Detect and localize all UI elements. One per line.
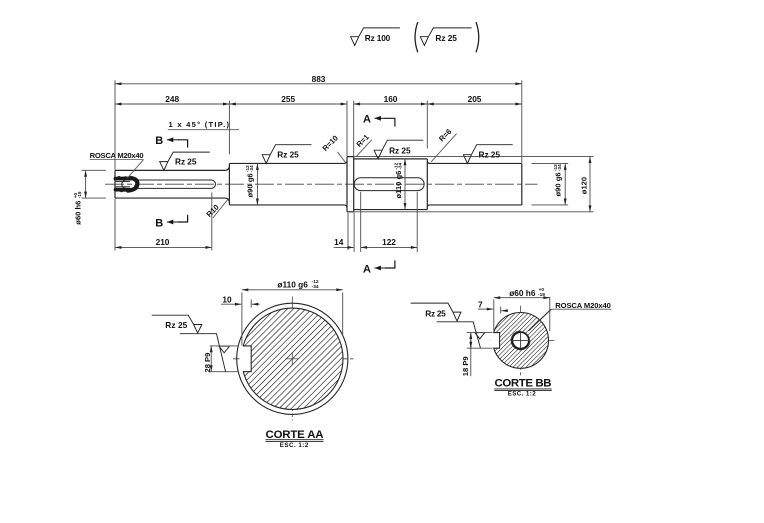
svg-text:7: 7 xyxy=(478,300,483,310)
svg-text:255: 255 xyxy=(281,94,295,104)
keyway slot on phi110 section (28 P9) xyxy=(354,178,424,191)
general roughness Rz 25 (top, in parentheses) xyxy=(415,22,418,52)
dimension phi110 g6 (rotated, on keyway section) xyxy=(404,159,406,210)
svg-text:Rz 25: Rz 25 xyxy=(277,149,299,159)
BB title CORTE BB xyxy=(494,378,551,398)
dimension 210 xyxy=(115,246,212,248)
svg-text:ø90 g6: ø90 g6 xyxy=(554,172,563,196)
dimension 255 xyxy=(229,103,347,105)
svg-text:Rz 25: Rz 25 xyxy=(425,308,446,318)
dimension 122 xyxy=(361,246,418,248)
AA outer circle phi120 (visible behind) xyxy=(237,303,348,414)
svg-text:18 P9: 18 P9 xyxy=(461,356,470,376)
svg-text:-34: -34 xyxy=(557,164,562,171)
svg-text:883: 883 xyxy=(312,74,326,84)
AA dim phi110 g6 -12 -34 xyxy=(242,290,343,346)
svg-text:Rz 25: Rz 25 xyxy=(389,146,411,156)
shaft centerline xyxy=(105,183,538,185)
BB dim 7 (keyway depth) xyxy=(478,307,508,314)
svg-text:Rz 25: Rz 25 xyxy=(175,156,197,166)
label ROSCA M20x40 with leader xyxy=(90,151,144,178)
BB hatched cut face (phi60) xyxy=(493,313,549,369)
dimension 160 xyxy=(354,103,428,105)
extension lines main view xyxy=(82,80,594,252)
roughness symbol Rz 25 on phi90 xyxy=(262,145,311,164)
note 1 x 45 (TIP.) xyxy=(168,120,239,130)
BB label ROSCA M20x40 with leader xyxy=(529,301,612,331)
svg-text:ESC. 1:2: ESC. 1:2 xyxy=(280,442,309,449)
AA hatched cut face (phi110) xyxy=(242,308,343,409)
svg-text:10: 10 xyxy=(222,294,232,304)
svg-text:ø90 g6: ø90 g6 xyxy=(246,173,255,197)
general roughness Rz 100 (top) xyxy=(351,28,400,46)
svg-text:28 P9: 28 P9 xyxy=(203,353,212,373)
AA keyway notch whiteout xyxy=(240,346,251,371)
svg-text:ø110 g6: ø110 g6 xyxy=(277,279,308,289)
fillet label R=10 with leader xyxy=(321,134,346,163)
svg-text:205: 205 xyxy=(468,94,482,104)
section arrow A top xyxy=(375,118,395,126)
svg-text:248: 248 xyxy=(165,94,179,104)
svg-text:Rz 25: Rz 25 xyxy=(165,320,187,330)
svg-text:A: A xyxy=(363,114,371,126)
dimension phi120 (far right, rotated) xyxy=(589,157,591,212)
svg-text:ESC. 1:2: ESC. 1:2 xyxy=(508,391,537,398)
svg-text:Rz 25: Rz 25 xyxy=(435,33,457,43)
svg-text:CORTE BB: CORTE BB xyxy=(495,378,552,390)
svg-text:Rz 25: Rz 25 xyxy=(479,149,501,159)
section arrow A bottom xyxy=(375,260,395,268)
svg-text:A: A xyxy=(363,263,371,275)
BB keyway notch outline xyxy=(494,333,500,349)
svg-text:-34: -34 xyxy=(398,162,403,169)
dimension phi90 g6 (right end, rotated) xyxy=(564,163,566,205)
BB dim phi60 h6 +0 -19 xyxy=(494,297,550,331)
BB center cross xyxy=(512,332,529,349)
AA dim 10 (keyway depth) xyxy=(221,300,260,308)
svg-text:ø120: ø120 xyxy=(580,177,589,194)
svg-text:1 x 45° (TIP.): 1 x 45° (TIP.) xyxy=(169,120,230,129)
BB keyway notch whiteout xyxy=(491,333,500,348)
svg-text:ø60 h6: ø60 h6 xyxy=(74,201,83,225)
AA keyway notch outline xyxy=(243,346,251,372)
BB roughness Rz 25 with flank symbol xyxy=(411,303,485,348)
fillet label R=1 with leader xyxy=(355,132,372,157)
shaft outline xyxy=(115,157,522,212)
svg-text:-19: -19 xyxy=(77,191,82,198)
svg-text:-34: -34 xyxy=(249,165,254,172)
svg-text:R=1: R=1 xyxy=(355,132,372,149)
BB centerlines xyxy=(491,306,556,376)
AA title CORTE AA xyxy=(266,429,324,449)
svg-text:ø110 g6: ø110 g6 xyxy=(394,171,403,199)
svg-text:Rz 100: Rz 100 xyxy=(365,33,391,43)
section arrow B bottom xyxy=(167,215,188,222)
svg-text:ROSCA M20x40: ROSCA M20x40 xyxy=(90,151,144,160)
svg-text:R10: R10 xyxy=(205,203,221,219)
roughness symbol Rz 25 on right phi90 xyxy=(463,145,512,164)
fillet label R10 with leader xyxy=(205,199,229,219)
svg-text:CORTE AA: CORTE AA xyxy=(266,429,324,441)
svg-text:160: 160 xyxy=(384,94,398,104)
dimension 883 xyxy=(115,83,522,85)
AA roughness Rz 25 with flank symbol xyxy=(152,315,230,372)
svg-text:B: B xyxy=(155,217,163,229)
svg-text:ø60 h6: ø60 h6 xyxy=(509,288,536,298)
svg-text:B: B xyxy=(155,135,163,147)
fillet label R=6 with leader xyxy=(431,127,456,162)
svg-text:14: 14 xyxy=(334,237,344,247)
dimension 205 xyxy=(427,103,522,105)
AA centerlines xyxy=(233,297,356,421)
svg-text:R=10: R=10 xyxy=(321,134,340,153)
BB tapped hole M20: minor circle + thread arc xyxy=(512,332,529,349)
svg-text:R=6: R=6 xyxy=(437,127,453,143)
dimension phi60 h6 left xyxy=(85,170,87,198)
section arrow B top xyxy=(167,140,188,148)
roughness symbol Rz 25 on phi110 xyxy=(374,140,423,159)
AA center cross xyxy=(286,352,299,365)
dimension 14 xyxy=(334,246,354,248)
dimension phi90 g6 (mid-left, rotated) xyxy=(256,163,258,205)
svg-text:122: 122 xyxy=(382,237,396,247)
AA dim 28 P9 xyxy=(210,346,239,372)
tapped hole thread M20x40 scribble xyxy=(116,176,138,193)
svg-text:-19: -19 xyxy=(538,292,545,298)
svg-text:-34: -34 xyxy=(312,284,319,290)
BB dim 18 P9 xyxy=(467,333,493,377)
svg-text:ROSCA M20x40: ROSCA M20x40 xyxy=(555,301,611,310)
dimension 248 xyxy=(115,103,229,105)
svg-text:210: 210 xyxy=(156,237,170,247)
keyway slot on shaft left end (18 P9) xyxy=(122,180,216,188)
roughness symbol Rz 25 on phi60 xyxy=(160,152,210,170)
